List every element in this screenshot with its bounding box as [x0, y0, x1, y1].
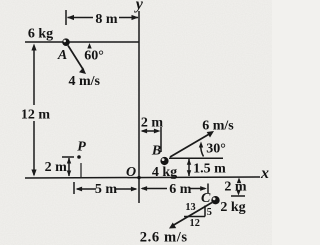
svg-text:B: B: [151, 144, 161, 159]
svg-text:2 m: 2 m: [141, 115, 164, 130]
svg-text:O: O: [126, 165, 136, 180]
svg-text:C: C: [201, 191, 211, 206]
svg-text:8 m: 8 m: [95, 12, 118, 27]
svg-text:6 kg: 6 kg: [28, 27, 53, 42]
svg-text:y: y: [134, 0, 144, 13]
svg-text:12: 12: [190, 218, 200, 229]
svg-text:1.5 m: 1.5 m: [193, 162, 226, 177]
svg-text:2.6 m/s: 2.6 m/s: [140, 229, 188, 245]
svg-text:2 m: 2 m: [224, 180, 247, 195]
svg-text:12 m: 12 m: [21, 108, 51, 123]
svg-text:2 kg: 2 kg: [220, 200, 245, 215]
svg-text:60°: 60°: [84, 49, 104, 64]
svg-text:30°: 30°: [206, 142, 226, 157]
svg-text:6 m: 6 m: [169, 182, 192, 197]
svg-text:2 m: 2 m: [45, 160, 68, 175]
svg-text:5: 5: [207, 207, 212, 218]
svg-text:6 m/s: 6 m/s: [202, 119, 234, 134]
svg-text:A: A: [57, 48, 67, 63]
svg-text:5 m: 5 m: [95, 182, 118, 197]
svg-text:P: P: [77, 140, 86, 155]
svg-text:4 m/s: 4 m/s: [68, 74, 100, 89]
svg-text:13: 13: [185, 202, 195, 213]
svg-text:4 kg: 4 kg: [152, 165, 177, 180]
svg-text:x: x: [260, 165, 269, 182]
